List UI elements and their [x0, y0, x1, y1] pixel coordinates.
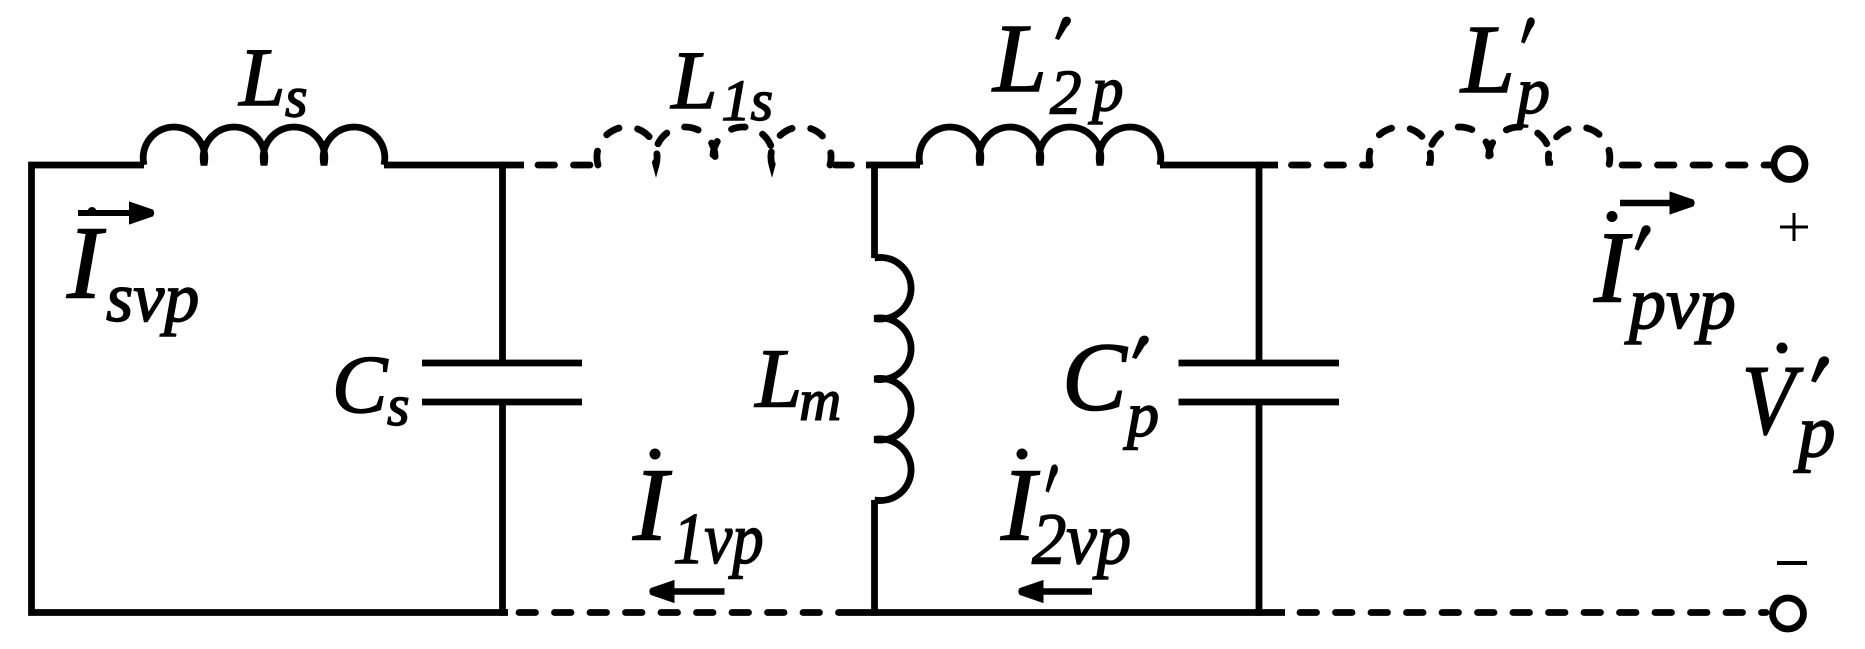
wire top dashed to plus terminal [1622, 162, 1771, 169]
current I1vp arrow [649, 580, 724, 603]
svg-text:2: 2 [1050, 58, 1082, 128]
minus sign [1777, 561, 1807, 565]
wire Cp branch upper [1256, 162, 1263, 360]
svg-text:C: C [332, 338, 389, 430]
label Isvp [66, 206, 199, 337]
svg-text:I: I [632, 448, 672, 563]
wire Cp branch lower [1256, 405, 1263, 616]
current Ipvp arrow [1620, 191, 1695, 214]
inductor L1s dashed [597, 127, 831, 165]
label I1vp [632, 448, 764, 579]
svg-text:L: L [754, 333, 802, 426]
wire Lm branch lower [871, 500, 878, 616]
inductor Lp dashed [1369, 127, 1610, 165]
current Isvp arrow [78, 201, 154, 224]
wire top between Ls and Cs node [384, 162, 524, 169]
capacitor Cp [1179, 363, 1340, 402]
label Cp [1062, 324, 1159, 451]
svg-text:p: p [1088, 55, 1124, 125]
capacitor Cs [422, 363, 582, 402]
wire Cs branch lower [499, 405, 506, 616]
svg-text:I: I [1593, 211, 1632, 324]
svg-text:s: s [387, 373, 410, 438]
svg-text:L: L [991, 5, 1047, 112]
wire bottom dashed right span [1300, 609, 1766, 616]
terminal minus [1773, 598, 1804, 629]
inductor Ls [143, 127, 385, 165]
svg-text:s: s [285, 65, 308, 130]
wire left loop (top-left, left side, bottom-left) [32, 165, 509, 613]
svg-text:V: V [1742, 345, 1804, 456]
svg-text:I: I [66, 206, 106, 321]
svg-text:p: p [1123, 379, 1159, 450]
label L2p [991, 5, 1124, 128]
current I2vp arrow [1018, 580, 1092, 603]
wire Lm branch upper [871, 162, 878, 258]
label Ls [238, 31, 307, 130]
wire top mid before L2p [866, 162, 920, 169]
svg-text:C: C [1062, 324, 1128, 431]
svg-text:1s: 1s [722, 68, 774, 133]
inductor L2p [919, 127, 1161, 165]
svg-text:m: m [799, 367, 841, 432]
svg-text:p: p [1793, 391, 1836, 474]
wire top mid after L2p [1160, 162, 1278, 169]
svg-text:svp: svp [106, 260, 199, 337]
wire bottom dashed left span [519, 609, 853, 616]
wire top dashed after Cs node [538, 162, 598, 169]
wire top dashed between L1s and Lm node [835, 162, 868, 169]
svg-text:L: L [670, 34, 717, 126]
svg-text:1vp: 1vp [673, 498, 764, 579]
label Lm [754, 333, 841, 433]
label Lp [1459, 6, 1550, 128]
svg-text:2vp: 2vp [1032, 500, 1131, 580]
plus sign [1780, 213, 1808, 241]
svg-text:L: L [238, 31, 285, 123]
svg-text:p: p [1513, 55, 1550, 128]
label Ipvp [1593, 211, 1736, 345]
wire Cs branch upper [499, 162, 506, 360]
svg-text:pvp: pvp [1624, 263, 1736, 345]
label I2vp [1000, 448, 1131, 580]
label Cs [332, 338, 410, 438]
wire top dashed after Cp node [1292, 162, 1371, 169]
svg-text:L: L [1459, 6, 1515, 113]
label L1s [670, 34, 773, 133]
label Vp [1742, 343, 1836, 474]
inductor Lm [875, 257, 912, 500]
wire bottom mid solid [853, 609, 1285, 616]
terminal plus [1774, 149, 1805, 180]
